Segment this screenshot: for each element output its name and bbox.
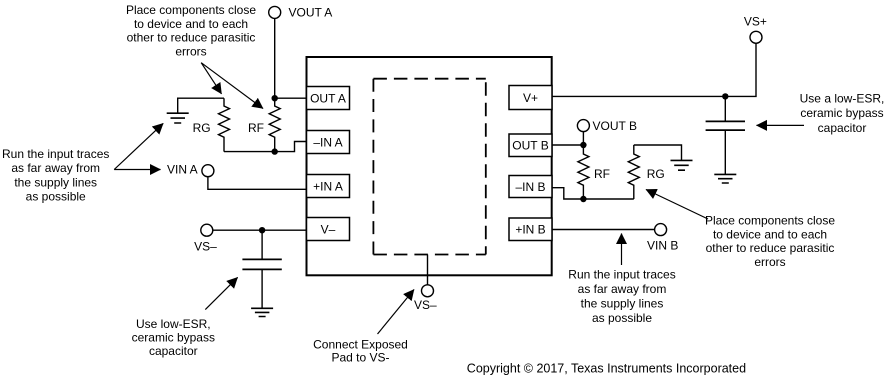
terminal VOUT B xyxy=(577,119,637,133)
svg-text:Pad to VS-: Pad to VS- xyxy=(331,351,389,365)
svg-text:other to reduce parasitic: other to reduce parasitic xyxy=(706,241,835,255)
arrow note to C2 xyxy=(757,124,805,126)
wire VS- to V- pin xyxy=(213,229,307,231)
svg-text:VIN A: VIN A xyxy=(167,163,198,177)
svg-text:VS–: VS– xyxy=(194,239,217,253)
wire OUT B pin xyxy=(552,144,583,146)
svg-text:as far away from: as far away from xyxy=(11,161,100,175)
svg-text:Run the input traces: Run the input traces xyxy=(2,147,109,161)
capacitor C2 (V+ bypass) xyxy=(706,96,745,174)
node OUT A junction xyxy=(272,95,278,101)
svg-text:ceramic bypass: ceramic bypass xyxy=(800,106,883,120)
wire VOUT A to OUT A node xyxy=(274,18,276,98)
svg-text:as possible: as possible xyxy=(26,189,86,203)
svg-text:OUT A: OUT A xyxy=(310,91,346,105)
svg-text:capacitor: capacitor xyxy=(818,121,867,135)
pin +IN A xyxy=(307,175,350,198)
wire OUT A pin xyxy=(275,97,307,99)
svg-text:Place components close: Place components close xyxy=(705,213,835,227)
svg-text:to device and to each: to device and to each xyxy=(134,17,248,31)
wire VOUT B to OUT B node xyxy=(582,132,584,145)
svg-text:RF: RF xyxy=(248,121,264,135)
node V- junction xyxy=(259,227,265,233)
svg-text:the supply lines: the supply lines xyxy=(581,296,664,310)
resistor RG (channel B) xyxy=(628,145,664,199)
arrow note to VIN A xyxy=(114,169,160,171)
svg-text:–IN A: –IN A xyxy=(313,135,342,149)
arrow note to RG B xyxy=(646,190,708,220)
resistor RF (channel B) xyxy=(578,145,610,199)
ground (left of RG A) xyxy=(167,113,189,123)
svg-text:RF: RF xyxy=(594,167,610,181)
svg-text:V+: V+ xyxy=(523,91,538,105)
pin -IN B xyxy=(509,176,552,198)
wire RG B top to ground xyxy=(634,145,682,160)
note: run input traces (channel A) xyxy=(2,147,109,203)
svg-text:VOUT A: VOUT A xyxy=(289,6,333,20)
ground (right of RG B) xyxy=(671,160,693,170)
terminal VS- (bottom) xyxy=(414,285,437,312)
svg-text:as far away from: as far away from xyxy=(578,282,667,296)
terminal VS- (left) xyxy=(194,224,217,253)
svg-text:to device and to each: to device and to each xyxy=(713,227,827,241)
node OUT B junction xyxy=(580,142,586,148)
terminal VS+ xyxy=(744,15,767,44)
pin OUT B xyxy=(509,134,552,157)
node V+ junction xyxy=(722,93,728,99)
note: connect exposed pad xyxy=(313,338,408,365)
wire feedback node to -IN A xyxy=(224,142,307,152)
svg-text:VS–: VS– xyxy=(414,298,437,312)
pin -IN A xyxy=(307,131,350,154)
exposed pad (dashed) xyxy=(373,79,485,255)
svg-text:VS+: VS+ xyxy=(744,15,767,29)
terminal VIN B xyxy=(647,224,678,253)
arrow note to ground A xyxy=(114,123,163,169)
svg-text:+IN A: +IN A xyxy=(313,179,343,193)
svg-text:Use low-ESR,: Use low-ESR, xyxy=(136,317,211,331)
note: place components close (channel A) xyxy=(126,3,256,58)
svg-text:other to reduce parasitic: other to reduce parasitic xyxy=(127,31,256,45)
pin OUT A xyxy=(307,87,350,110)
node -IN B junction xyxy=(580,196,586,202)
wire +IN B pin xyxy=(552,229,655,231)
note: use low-ESR capacitor (left) xyxy=(132,317,215,358)
resistor RF (channel A) xyxy=(248,98,280,151)
arrow note to VS- terminal xyxy=(378,290,415,335)
node -IN A junction xyxy=(272,148,278,154)
svg-text:ceramic bypass: ceramic bypass xyxy=(132,331,215,345)
pin V- xyxy=(307,218,350,241)
svg-text:V–: V– xyxy=(321,222,336,236)
note: place components close (channel B) xyxy=(705,213,835,268)
note: run input traces (channel B) xyxy=(568,267,675,325)
wire RG top to ground xyxy=(178,98,224,113)
ground (below C1) xyxy=(251,308,273,316)
ground (below C2) xyxy=(714,174,736,183)
svg-text:+IN B: +IN B xyxy=(515,223,545,237)
arrow note to +IN B wire xyxy=(621,234,623,266)
arrow note to RF A xyxy=(201,63,263,109)
svg-text:errors: errors xyxy=(175,44,206,58)
op-amp IC U1 body xyxy=(307,57,552,275)
wire exposed pad to VS- xyxy=(427,255,429,286)
pin V+ xyxy=(509,86,552,110)
note: use a low-ESR capacitor (right) xyxy=(800,92,885,135)
wire VS+ to V+ pin xyxy=(552,43,756,96)
svg-text:VOUT B: VOUT B xyxy=(593,119,637,133)
svg-text:Connect Exposed: Connect Exposed xyxy=(313,338,408,352)
svg-text:Copyright © 2017, Texas Instru: Copyright © 2017, Texas Instruments Inco… xyxy=(467,362,746,376)
terminal VIN A xyxy=(167,163,214,177)
svg-text:VIN B: VIN B xyxy=(647,238,678,252)
svg-text:as possible: as possible xyxy=(592,311,652,325)
svg-text:the supply lines: the supply lines xyxy=(14,176,97,190)
svg-text:Run the input traces: Run the input traces xyxy=(568,267,675,281)
svg-text:capacitor: capacitor xyxy=(149,344,198,358)
wire -IN B to feedback node xyxy=(552,188,634,199)
svg-text:errors: errors xyxy=(754,255,785,269)
resistor RG (channel A) xyxy=(193,98,230,151)
capacitor C1 (V- bypass) xyxy=(242,230,281,308)
svg-text:RG: RG xyxy=(647,167,665,181)
arrow note to C1 xyxy=(205,277,237,309)
terminal VOUT A xyxy=(269,6,333,20)
arrow note to RG A xyxy=(201,63,221,94)
svg-text:OUT B: OUT B xyxy=(512,138,548,152)
wire VIN A to +IN A xyxy=(208,177,307,190)
svg-text:RG: RG xyxy=(193,121,211,135)
svg-text:–IN B: –IN B xyxy=(515,180,545,194)
pin +IN B xyxy=(509,218,552,241)
svg-text:Place components close: Place components close xyxy=(126,3,256,17)
svg-text:Use a low-ESR,: Use a low-ESR, xyxy=(800,92,885,106)
